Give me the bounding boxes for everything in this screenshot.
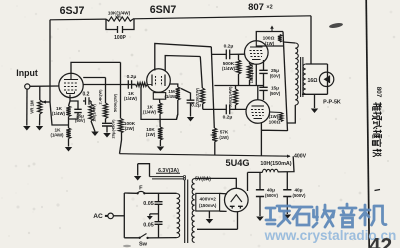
- capacitor 0.2u to ground: [181, 89, 191, 117]
- tube 6SJ7 electrodes: [64, 73, 78, 79]
- wire OPT primary bottom: [288, 105, 296, 123]
- svg-text:57K: 57K: [220, 130, 229, 135]
- wire plate bus right: [283, 32, 288, 132]
- svg-text:Sw: Sw: [139, 241, 148, 247]
- label sidebar hanzi 5: [373, 139, 382, 147]
- arrow 400V: [287, 155, 291, 158]
- wire speaker right edge: [327, 64, 329, 94]
- box 400Vx2 label: [196, 193, 220, 211]
- svg-text:5V(3A): 5V(3A): [195, 177, 211, 183]
- transformer PT core: [185, 180, 188, 244]
- svg-text:25μ: 25μ: [271, 68, 279, 73]
- potentiometer VR 10K on rail: [106, 17, 133, 21]
- capacitor 40u second: [283, 190, 291, 197]
- capacitor 0.2u bottom 807: [226, 105, 229, 115]
- wire PT sec top 5V: [195, 177, 212, 179]
- capacitor 0.2u top 807: [226, 50, 229, 60]
- transformer OPT primary: [295, 43, 298, 105]
- transformer PT primary: [177, 194, 180, 238]
- svg-text:0.2μ: 0.2μ: [127, 74, 137, 80]
- svg-text:P-P-5K: P-P-5K: [323, 100, 341, 106]
- fuse F: [136, 192, 138, 194]
- svg-text:42: 42: [369, 235, 392, 248]
- wire 6SJ7 plate top cap: [71, 62, 121, 73]
- capacitor 40u first: [256, 190, 264, 197]
- svg-text:(1W): (1W): [146, 132, 156, 137]
- wire filter caps drop: [158, 193, 160, 238]
- tube 807 bottom envelope: [246, 100, 270, 124]
- svg-text:(50V): (50V): [270, 91, 281, 96]
- ground heater: [134, 176, 142, 181]
- tube 6SJ7 envelope: [59, 73, 83, 97]
- resistor 100ohm top: [278, 35, 282, 43]
- tube 807 bottom electrodes: [252, 105, 265, 107]
- svg-text:807: 807: [375, 87, 382, 98]
- svg-text:(50V): (50V): [75, 118, 86, 123]
- wire heater hook: [138, 164, 150, 177]
- svg-text:(500V): (500V): [293, 193, 306, 198]
- ground CT: [206, 219, 214, 224]
- wire AC box top: [124, 192, 176, 194]
- svg-text:15μ: 15μ: [271, 86, 279, 91]
- svg-text:(1/4W): (1/4W): [143, 110, 156, 115]
- wire A to cap: [105, 119, 107, 123]
- tube 6SN7 cathode box: [153, 93, 165, 100]
- svg-text:(1/4W): (1/4W): [124, 96, 137, 101]
- svg-text:(150mA): (150mA): [199, 203, 217, 208]
- wire input to grid: [30, 85, 60, 87]
- wire 807 top plate loop: [256, 32, 283, 47]
- wire cap1 drop: [259, 172, 261, 216]
- svg-text:10H(150mA): 10H(150mA): [260, 161, 291, 167]
- capacitor 0.2 at cathode: [83, 100, 91, 102]
- svg-text:(1W): (1W): [219, 135, 229, 140]
- svg-text:1M(1/4W): 1M(1/4W): [92, 104, 97, 122]
- wire top feedback rail: [50, 16, 311, 20]
- ground caps mid: [147, 216, 153, 220]
- wire 5V to tube top: [212, 178, 236, 188]
- capacitor 100P: [118, 26, 123, 33]
- svg-text:0.05: 0.05: [143, 201, 154, 207]
- wire HT top to plate: [220, 192, 227, 195]
- wire VR wiper arrow: [42, 101, 50, 103]
- svg-text:(1W): (1W): [269, 114, 279, 119]
- svg-text:400V×2: 400V×2: [200, 196, 217, 201]
- svg-text:2.4K(W): 2.4K(W): [98, 89, 103, 105]
- wire 6SN7 plate1 loop: [155, 44, 212, 71]
- svg-text:(1W): (1W): [265, 41, 275, 46]
- arrow B+ annotation: [271, 28, 273, 32]
- resistor cathode top 807: [249, 62, 251, 86]
- wire plate2 drop: [200, 57, 203, 110]
- wire 6SJ7 coupling: [83, 84, 148, 86]
- watermark char shou: [313, 205, 334, 227]
- svg-text:0.2μ: 0.2μ: [191, 103, 201, 109]
- svg-text:6SJ7: 6SJ7: [60, 5, 85, 17]
- wire 100P parallel branch: [106, 19, 134, 30]
- svg-text:Input: Input: [16, 68, 38, 78]
- capacitor 0.05 lower: [155, 222, 163, 225]
- resistor 500K grid leak top: [238, 54, 240, 85]
- svg-text:(1/4W): (1/4W): [222, 66, 235, 71]
- resistor 100ohm bottom: [279, 113, 283, 122]
- resistor 1M grid: [91, 101, 95, 132]
- wire choke left to tube: [247, 172, 249, 191]
- capacitor 0.05 upper: [155, 202, 163, 205]
- wire cathode node: [68, 117, 70, 129]
- svg-text:VR 1M: VR 1M: [30, 100, 35, 114]
- wire 6SJ7 cathode: [69, 95, 71, 107]
- watermark char shi: [292, 207, 312, 225]
- svg-text:0.2μ: 0.2μ: [223, 115, 233, 121]
- wire CT ground: [208, 211, 210, 219]
- ground cap2: [284, 215, 292, 220]
- wire cap2 drop: [286, 172, 288, 214]
- wire bias bus: [214, 85, 263, 87]
- resistor 10K 1W: [158, 127, 163, 140]
- svg-text:(500V): (500V): [265, 193, 278, 198]
- wire 807 bottom cathode: [257, 86, 259, 100]
- ground OPT secondary: [311, 109, 318, 114]
- svg-text:40μ: 40μ: [294, 188, 302, 193]
- wire to ground 1K: [68, 139, 70, 147]
- svg-text:0.05: 0.05: [143, 223, 154, 229]
- svg-text:(1/4W): (1/4W): [52, 111, 65, 116]
- svg-text:(1/4W): (1/4W): [51, 133, 64, 138]
- wire plate1 drop 57K: [211, 47, 215, 156]
- resistor 500ohm lower: [233, 89, 237, 105]
- terminal AC: [108, 213, 114, 219]
- wire OPT secondary bottom: [302, 93, 328, 95]
- capacitor 15u bias: [263, 86, 265, 101]
- label sidebar hanzi 4: [373, 130, 382, 139]
- svg-text:100Ω: 100Ω: [269, 120, 281, 126]
- svg-text:807: 807: [248, 2, 264, 13]
- wire grid top 807: [212, 53, 245, 55]
- svg-text:0.2μ: 0.2μ: [224, 44, 234, 50]
- ground 0.2u: [187, 117, 194, 122]
- wire OPT primary top: [283, 42, 295, 43]
- svg-text:(2W): (2W): [125, 126, 135, 131]
- capacitor 25u bypass: [69, 101, 79, 119]
- svg-text:16Ω: 16Ω: [308, 78, 318, 84]
- ground 6SJ7 cathode: [65, 147, 72, 152]
- label sidebar hanzi 3: [373, 120, 381, 129]
- resistor 12K on plate2 drop: [200, 88, 204, 104]
- svg-text:100P: 100P: [114, 35, 126, 41]
- ground 1M: [91, 132, 99, 137]
- wire plate2 stub: [220, 210, 227, 212]
- transformer PT secondary: [192, 179, 195, 243]
- choke 10H: [248, 156, 295, 172]
- svg-text:6SN7: 6SN7: [150, 4, 177, 16]
- svg-text:5U4G: 5U4G: [225, 158, 249, 168]
- tube 6SN7 electrodes: [152, 75, 165, 87]
- capacitor 0.2u coupling1: [128, 80, 131, 88]
- connector heater: [183, 176, 185, 178]
- wire AC box left: [123, 193, 125, 238]
- watermark char kuang: [266, 206, 290, 226]
- tube 5U4G electrodes: [231, 195, 242, 202]
- label sidebar hanzi 6: [373, 149, 382, 157]
- wire secondary to ground: [314, 94, 316, 108]
- svg-text:400V: 400V: [294, 154, 307, 160]
- svg-text:500Ω(1/4W): 500Ω(1/4W): [229, 86, 233, 108]
- wire feedback left drop: [50, 20, 69, 125]
- speaker: [319, 72, 333, 86]
- svg-text:(50V): (50V): [270, 74, 281, 79]
- potentiometer VR 1M: [39, 86, 41, 125]
- svg-text:×2: ×2: [266, 5, 272, 11]
- wire grid bottom 807: [203, 108, 247, 110]
- label sidebar hanzi 1: [373, 102, 382, 111]
- wire plate load B: [120, 62, 122, 153]
- svg-text:20μ(450V): 20μ(450V): [111, 119, 116, 139]
- sidebar dash: [375, 190, 381, 191]
- wire input shield drop: [26, 89, 28, 125]
- resistor 1K 6SN7 cathode: [158, 103, 162, 114]
- wire B+ drop to OPT: [310, 16, 312, 64]
- resistor 2.4K: [103, 103, 107, 119]
- svg-text:0.2: 0.2: [83, 92, 90, 98]
- svg-text:AC: AC: [93, 213, 103, 220]
- wire AC box bottom: [124, 237, 176, 239]
- terminal input jack: [25, 84, 30, 89]
- svg-text:F: F: [139, 186, 143, 192]
- wire caps mid tap: [150, 214, 159, 216]
- wire 6SN7 plate2 loop: [165, 56, 200, 72]
- switch Sw: [138, 237, 140, 239]
- wire 807 bottom plate: [261, 122, 287, 156]
- tube 5U4G envelope: [225, 188, 249, 212]
- wire HT bottom wire: [197, 212, 238, 230]
- resistor 1K cathode upper: [66, 106, 70, 117]
- wire AC to box: [114, 215, 125, 217]
- transformer OPT secondary: [303, 64, 306, 94]
- resistor 1K grid stopper 6SN7: [136, 83, 148, 87]
- wire OPT secondary top: [306, 63, 328, 65]
- svg-text:VR: VR: [115, 14, 121, 19]
- svg-text:(1/4W): (1/4W): [165, 94, 178, 99]
- wire phase splitter L: [141, 87, 178, 120]
- wire B+ 400V rail: [120, 154, 291, 157]
- resistor 100K 2W: [119, 119, 124, 134]
- divider line: [366, 0, 369, 248]
- watermark char ji: [360, 205, 386, 225]
- ground 10K: [157, 147, 165, 152]
- wire plate load A: [105, 78, 107, 104]
- capacitor 25u bias: [263, 60, 265, 86]
- wire 6SN7 cathode down: [159, 99, 162, 146]
- ground 20u: [103, 133, 111, 138]
- resistor 57K: [212, 128, 217, 142]
- ground VR 1M: [36, 126, 43, 131]
- capacitor 20u 450V: [102, 123, 112, 126]
- svg-text:12K(1W): 12K(1W): [195, 87, 200, 104]
- tube 6SN7 envelope: [147, 69, 171, 93]
- wire heater pair: [150, 173, 184, 179]
- label sidebar hanzi 2: [372, 111, 382, 120]
- resistor 1M 6SN7: [176, 87, 180, 100]
- watermark char yin: [339, 204, 356, 227]
- svg-text:500K(2W): 500K(2W): [113, 93, 118, 112]
- wire 807 top cathode: [255, 64, 257, 85]
- svg-text:40μ: 40μ: [267, 188, 275, 193]
- svg-text:100K(1/4W): 100K(1/4W): [250, 62, 254, 83]
- tube 807 top envelope: [244, 41, 268, 65]
- tube 807 top electrodes: [250, 41, 263, 47]
- ground cap1: [256, 217, 264, 222]
- transformer OPT core: [301, 57, 303, 97]
- wire 6SJ7 screen right: [83, 77, 105, 79]
- resistor 1K cathode lower: [66, 128, 70, 139]
- ground input: [23, 126, 31, 131]
